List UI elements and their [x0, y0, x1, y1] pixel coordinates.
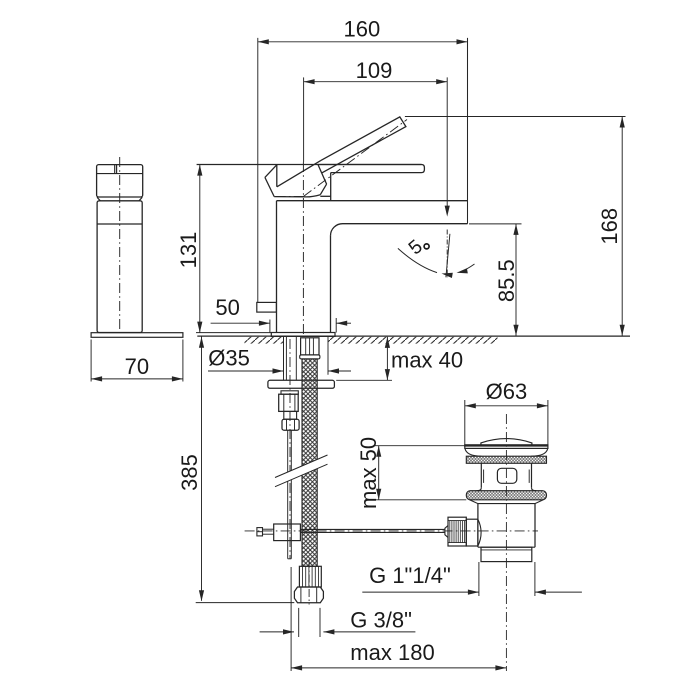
drain rim top surface — [465, 445, 548, 447]
dimension G114 leader line — [362, 591, 479, 593]
aerator axis arrow — [445, 206, 450, 217]
dimension 70 line — [91, 378, 183, 380]
closed lever neck bottom step — [320, 195, 330, 197]
dimension G38 arrows — [283, 629, 294, 634]
svg-text:70: 70 — [125, 354, 149, 379]
dimension O63 line — [465, 405, 548, 407]
dimension O63 extension lines — [464, 400, 466, 447]
drain tailpipe — [481, 547, 532, 561]
drain flare right — [532, 488, 537, 491]
drain knob — [448, 517, 466, 546]
counter hole edge right — [327, 337, 329, 375]
tilted lever outline — [321, 117, 406, 173]
dimension 385 bottom extension — [196, 602, 295, 604]
closed lever neck — [330, 173, 332, 201]
swing needle tilted — [446, 234, 450, 277]
front view handle cap — [97, 165, 143, 197]
spout inner fillet — [331, 224, 343, 236]
drain rim — [465, 445, 548, 449]
dimension max180 line — [291, 667, 506, 669]
drain centerline — [505, 414, 507, 671]
svg-text:G 1"1/4": G 1"1/4" — [369, 563, 451, 588]
swing arc right — [461, 264, 475, 272]
drain tube bottom line — [478, 546, 535, 548]
handle cap right edge upper — [318, 165, 327, 185]
drain body tube — [477, 504, 479, 548]
drain knob cone — [445, 526, 448, 538]
dimension G38 leader line — [260, 631, 294, 633]
dimension G114 arrows — [468, 590, 479, 595]
dimension 70 extension lines — [90, 340, 92, 382]
flexible hose braid — [302, 359, 317, 566]
svg-text:385: 385 — [177, 454, 202, 491]
counter hatch left — [245, 337, 284, 344]
hose nut G38 — [294, 587, 323, 603]
dimension max40 arrows — [385, 337, 390, 348]
lever tip extension line — [405, 116, 626, 118]
svg-text:109: 109 — [356, 58, 393, 83]
drain rim fillet right — [531, 449, 548, 457]
rod guide collar — [281, 391, 298, 394]
dimension 50 arrows — [259, 321, 270, 326]
tilted lever axis centerline — [303, 120, 407, 197]
drain boss — [466, 519, 478, 546]
dimension max50 line — [378, 446, 380, 500]
rod clamp block — [274, 524, 301, 541]
front view cap band line — [97, 173, 143, 175]
hose centerline — [308, 560, 310, 605]
faucet body top / spout top edge — [277, 200, 468, 202]
handle cap tilted top edge — [277, 160, 321, 186]
drain flare left — [477, 488, 482, 491]
dimension 160 left extension — [257, 38, 259, 303]
threaded shank lines — [283, 337, 285, 381]
drain knurled band lower — [466, 491, 546, 500]
drain overflow window — [497, 468, 516, 483]
dimension 131 line — [199, 165, 201, 333]
rod guide hex nut — [279, 394, 299, 411]
handle cap bottom edge — [274, 195, 320, 197]
svg-text:168: 168 — [597, 208, 622, 245]
dimension max50 bottom extension — [374, 499, 466, 501]
break symbol lines — [275, 455, 328, 478]
front view cap taper — [97, 197, 142, 201]
clamp screw head — [257, 528, 263, 536]
front view centerline — [119, 157, 121, 330]
faucet body left wall — [276, 201, 278, 333]
dimension 131 bottom extension — [196, 332, 271, 334]
linkage rod centerline — [245, 530, 538, 532]
svg-text:max 40: max 40 — [391, 348, 463, 373]
dimension 160 arrows — [258, 39, 269, 44]
drain knob ribs — [449, 521, 451, 543]
dimension max50 arrows — [376, 446, 381, 457]
dimension 85.5 line — [515, 224, 517, 336]
dimension O35 arrows — [273, 368, 284, 373]
handle cap corner edge upper — [265, 165, 277, 178]
dimension 168 arrows — [620, 117, 625, 128]
spout tip edge / 160 extension line — [467, 38, 469, 224]
dimension 50 line — [211, 322, 270, 324]
svg-text:131: 131 — [176, 232, 201, 269]
109 left extension line — [303, 77, 305, 162]
spout underside — [343, 223, 468, 225]
closed lever bar — [318, 165, 424, 173]
swing needle vertical — [446, 230, 448, 278]
closed lever top edge / 131 extension line — [197, 164, 422, 166]
dimension max180 left extension — [290, 567, 292, 671]
front view body — [97, 201, 142, 333]
pop-up rod — [287, 430, 289, 559]
faucet body centerline — [302, 162, 304, 336]
faucet body right wall — [330, 236, 332, 333]
svg-text:G 3/8": G 3/8" — [350, 607, 412, 632]
dimension max40 line — [386, 337, 388, 380]
svg-text:Ø63: Ø63 — [486, 379, 528, 404]
drain rim fillet left — [465, 449, 482, 457]
handle cap left edge — [276, 165, 278, 187]
body rear small box — [257, 302, 277, 312]
dimension G114 extension lines — [478, 562, 480, 596]
faucet base flange — [271, 333, 335, 337]
svg-text:85.5: 85.5 — [494, 259, 519, 302]
handle cap corner edge lower — [265, 177, 274, 196]
handle pivot axis centerline — [276, 196, 304, 198]
counter hatch right — [328, 337, 498, 344]
svg-text:160: 160 — [344, 16, 381, 41]
svg-text:50: 50 — [215, 295, 239, 320]
svg-text:max 50: max 50 — [356, 437, 381, 509]
dimension 160 line — [258, 41, 468, 43]
stud centerline — [289, 339, 291, 559]
dimension 385 line — [201, 336, 203, 600]
aerator axis leader line — [446, 77, 448, 206]
dimension 50 extension lines — [269, 320, 271, 333]
dimension max40 washer extension — [336, 379, 392, 381]
handle cap right edge lower — [320, 184, 326, 195]
dimension 85.5 top extension — [469, 223, 522, 225]
linkage rod — [300, 528, 445, 530]
dimension 70 arrows — [91, 376, 102, 381]
pop-up rod end — [288, 558, 292, 560]
hose ferrule — [301, 338, 319, 355]
dimension max180 arrows — [291, 665, 302, 670]
svg-text:Ø35: Ø35 — [208, 345, 250, 370]
dimension 131 arrows — [197, 165, 202, 176]
dimension O63 arrows — [465, 403, 476, 408]
drain body groove lines — [483, 470, 485, 483]
hose end ferrule — [299, 566, 321, 587]
swing arc left arrow — [442, 273, 453, 278]
dimension 109 arrows — [304, 79, 315, 84]
svg-text:max 180: max 180 — [350, 640, 434, 665]
dimension max50 top extension — [374, 445, 464, 447]
break symbol mask — [275, 455, 328, 487]
dimension 85.5 arrows — [513, 224, 518, 235]
mounting washer — [268, 380, 335, 388]
dimension 385 arrows — [199, 337, 204, 348]
hose end ferrule ribs — [302, 566, 304, 587]
front view lever blade edge — [114, 165, 116, 174]
dimension 109 line — [304, 81, 448, 83]
dimension 168 line — [621, 117, 623, 336]
rod guide lower hex — [282, 419, 299, 430]
counter hole edge left — [283, 337, 285, 375]
dimension G38 extension ticks — [298, 608, 300, 637]
dimension O35 line — [208, 370, 284, 372]
swing arc left — [398, 248, 437, 272]
front view base plate — [91, 333, 183, 338]
front view spout shoulder line — [97, 223, 142, 225]
drain plug dome — [481, 439, 532, 449]
counter top line — [197, 335, 630, 337]
rod guide neck — [284, 411, 297, 419]
drain skirt — [470, 500, 544, 504]
hose crimp collar — [300, 355, 320, 359]
swing arc right arrow — [457, 268, 468, 273]
drain knurled band upper — [466, 456, 546, 463]
clamp screw slot — [257, 531, 263, 533]
drain body walls — [480, 463, 482, 487]
clamp screw shaft — [263, 528, 274, 530]
